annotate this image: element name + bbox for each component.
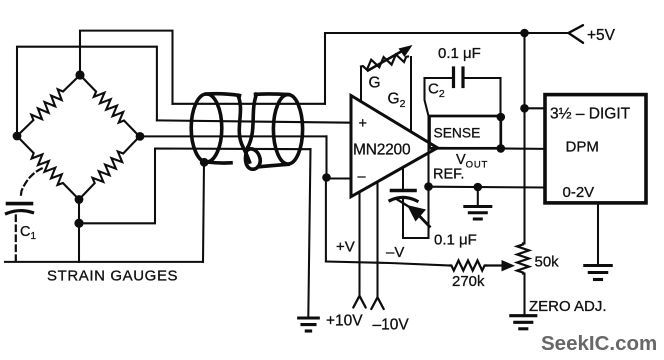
ground: DPM ground	[585, 266, 611, 280]
svg-text:–V: –V	[386, 244, 404, 261]
gain pot G pin right	[410, 57, 412, 132]
svg-text:ZERO ADJ.: ZERO ADJ.	[529, 298, 607, 315]
wire: riser from wire1 up to +5V rail	[324, 33, 326, 104]
capacitor C2 right plate	[461, 68, 464, 87]
svg-text:SeekIC.com: SeekIC.com	[541, 332, 657, 355]
junction dot: sense/C2 node	[497, 113, 506, 122]
junction dot: bridge right corner	[136, 132, 145, 141]
trimmer capacitor C3 bottom plate (curved)	[390, 197, 417, 201]
strain gauge bridge: top corner node dot	[75, 70, 84, 79]
shielded cable: tube 2 bottom loop	[245, 148, 260, 169]
connector arrow -10V	[371, 297, 383, 309]
gain pot G pin left	[360, 67, 362, 102]
wire: REF node down to ground	[477, 187, 479, 206]
svg-text:0-2V: 0-2V	[563, 184, 595, 201]
wire: cable wire2 to op-amp + input	[157, 120, 351, 122]
svg-text:–10V: –10V	[373, 317, 410, 334]
gain pot wiper arrow	[368, 45, 413, 71]
wire: 270k to pot wiper arrow	[486, 260, 515, 271]
shielded cable: tube 2 bottom edge	[259, 164, 289, 167]
wire: REF rail to DPM	[429, 186, 546, 189]
junction dot: bridge bottom common tap	[74, 219, 83, 228]
junction dot: DPM supply node	[520, 104, 529, 113]
svg-text:G2: G2	[388, 91, 406, 111]
wire: minus node down to zero-adjust run	[325, 178, 327, 262]
op-amp -V supply pin wire to -10V connector	[376, 182, 378, 297]
svg-text:C1: C1	[20, 224, 36, 242]
trimmer capacitor C3 top plate	[392, 189, 416, 193]
capacitor C2 top wire	[425, 77, 501, 79]
junction dot: REF ground node	[474, 183, 483, 192]
svg-text:–: –	[358, 169, 367, 185]
op-amp +V supply pin wire to +10V connector	[358, 193, 360, 296]
ground: zero-adj pot ground	[511, 316, 536, 329]
wire: wire3 drop to minus-input node	[325, 136, 327, 177]
strain gauge resistor: bridge arm left-bottom	[17, 136, 79, 200]
svg-text:REF.: REF.	[433, 167, 464, 183]
wire: bridge right corner to cable wire3	[140, 135, 327, 137]
junction dot: REF left node	[424, 182, 433, 191]
trimmer capacitor C3 bottom lead to REF rail	[403, 200, 429, 239]
svg-text:50k: 50k	[535, 254, 560, 271]
wire: cable wire4 drop to system ground	[308, 149, 310, 317]
trimmer capacitor C3 pin from op-amp	[402, 167, 404, 188]
svg-text:SENSE: SENSE	[434, 126, 481, 141]
wire: inner loop bridge left corner up and right, down to cable wire2	[17, 47, 157, 136]
gain pot G zigzag resistor	[361, 55, 408, 70]
capacitor C2 left plate	[452, 68, 455, 87]
wire: minus-input node to op-amp - input	[327, 177, 352, 179]
strain gauge resistor: bridge arm top-right	[80, 75, 140, 137]
svg-text:+5V: +5V	[587, 27, 616, 44]
wire: cable shield drain to common line	[203, 163, 204, 262]
wire: +5V top rail	[325, 32, 568, 34]
shielded cable: tube 2 right ellipse	[273, 95, 302, 164]
shielded cable: tube 1 top edge	[207, 94, 240, 96]
op-amp U1 MN2200 triangle	[351, 96, 438, 197]
wire: common tap right, up, and through cable wire4	[79, 149, 311, 224]
svg-text:0.1 μF: 0.1 μF	[438, 45, 481, 62]
svg-text:0.1 μF: 0.1 μF	[434, 232, 477, 249]
wire: bridge top excitation loop (top corner up, right, down to cable wire1)	[80, 31, 173, 104]
junction dot: shield drain at tube bottom	[200, 158, 209, 167]
ground: system ground under cable	[299, 318, 319, 331]
shielded cable: tube 1 bottom edge	[207, 162, 232, 163]
wire: +5V drop to DPM node and down to zero-adj pot	[523, 33, 525, 315]
shielded cable: tube 1 right twist curve	[238, 96, 250, 163]
wire: C2 right rail down to sense box	[499, 78, 501, 117]
svg-text:DPM: DPM	[566, 139, 599, 156]
wire: bridge bottom corner down to common line	[78, 200, 80, 263]
wire: cable wire1 horizontal (excitation through shield)	[173, 103, 326, 105]
wire: node to DPM supply pin	[525, 107, 546, 109]
wire: strain-gauge common bottom line	[5, 261, 203, 263]
junction dot: sense/output node	[497, 144, 506, 153]
svg-text:+V: +V	[336, 239, 355, 256]
connector arrow +10V	[353, 296, 365, 308]
DPM box	[545, 95, 646, 203]
junction dot: +5V rail	[520, 29, 529, 38]
SENSE box	[430, 116, 501, 148]
svg-text:270k: 270k	[452, 273, 485, 290]
strain gauge resistor: bridge arm top-left	[17, 75, 80, 136]
junction dot: minus input node	[322, 173, 331, 182]
wire: zero-adjust horizontal run to 270k	[326, 262, 450, 266]
svg-text:+10V: +10V	[326, 313, 363, 330]
potentiometer 50k zigzag body	[517, 244, 529, 274]
svg-text:STRAIN GAUGES: STRAIN GAUGES	[47, 268, 178, 285]
capacitor C1 dashed lead from bridge arm	[21, 169, 42, 199]
shielded cable: tube 2 top edge	[256, 92, 289, 96]
capacitor C1 top plate	[8, 202, 32, 206]
ground: REF ground	[465, 207, 491, 220]
wire: DPM analog ground drop	[597, 203, 599, 265]
svg-text:3½ – DIGIT: 3½ – DIGIT	[550, 106, 631, 123]
svg-text:MN2200: MN2200	[353, 142, 411, 159]
svg-text:C2: C2	[428, 81, 445, 101]
shielded cable: tube 2 left twist curve	[248, 94, 257, 148]
wire: C2 left rail down to REF rail	[425, 78, 429, 238]
junction dot: bridge bottom corner	[75, 195, 84, 204]
strain gauge resistor: bridge arm right-bottom	[79, 137, 140, 200]
trimmer capacitor C3 adjust arrow	[397, 199, 430, 227]
svg-text:+: +	[359, 116, 367, 132]
wire: op-amp output Vout to DPM	[438, 148, 546, 149]
resistor 270k zigzag	[450, 261, 486, 271]
shielded cable: tube 1 left ellipse	[191, 94, 222, 162]
svg-text:G: G	[369, 75, 381, 92]
capacitor C1 dashed lead to common line	[15, 216, 17, 262]
connector arrow +5V	[569, 25, 584, 43]
junction dot: bridge left corner	[13, 132, 22, 141]
capacitor C1 bottom plate (curved)	[7, 211, 33, 214]
